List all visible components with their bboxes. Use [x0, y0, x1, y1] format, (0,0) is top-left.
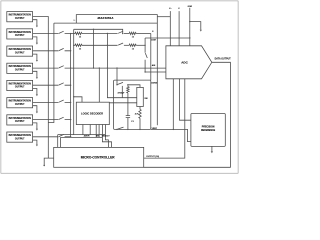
wire from box A2: [33, 33, 71, 35]
instrumentation amplifier output box A6: [7, 98, 33, 108]
svg-text:OUTPUT: OUTPUT: [15, 70, 25, 72]
switch S4 on box A5 wire: [59, 83, 64, 85]
junction bus2-decoder: [73, 96, 74, 97]
switch driver box U5: [137, 87, 144, 106]
junction on bus 1 at y=119.6: [70, 119, 71, 120]
wire micro left port: [44, 158, 54, 165]
wire ADC input 2 from switch S5: [145, 71, 166, 73]
wire row B after switch: [124, 44, 129, 46]
top jumper wire into row A: [74, 29, 123, 33]
switch S2 on box A3 wire: [59, 48, 64, 50]
wire jumper node down to AIN line: [93, 29, 95, 68]
svg-text:OUTPUT: OUTPUT: [15, 87, 25, 89]
junction AIN cross: [107, 67, 108, 68]
wire switch node to driver top: [128, 85, 140, 88]
switch S2A on row A: [118, 31, 123, 33]
chain arrow from box A1 down: [33, 20, 37, 26]
wire driver to R6: [139, 107, 141, 110]
junction row A tap: [107, 33, 108, 34]
vertical bus wire at left of mux: [48, 23, 54, 122]
instrumentation amplifier output box A1: [7, 12, 33, 22]
junction S5-AIN2: [144, 71, 145, 72]
junction switch S3 pole: [116, 84, 117, 85]
junction switch S3 throw: [127, 84, 128, 85]
instrumentation amplifier output box A3: [7, 46, 33, 56]
GND wire to mux COM pin: [145, 37, 190, 39]
decoder bottom pin wire 6: [104, 124, 106, 134]
ground arrow head under reference: [211, 151, 213, 153]
wire row A to right corner: [136, 33, 151, 35]
wire from box A6: [33, 101, 71, 103]
junction bottom rail: [116, 129, 117, 130]
svg-text:OUTPUT: OUTPUT: [15, 52, 25, 54]
wire row B middle: [82, 44, 118, 46]
svg-text:REFERENCE: REFERENCE: [201, 130, 216, 132]
wire row A drop to reference node: [150, 34, 152, 81]
supply V- wire: [178, 11, 180, 46]
chain arrow from box A6 down: [33, 106, 37, 112]
junction jumper tap: [93, 29, 94, 30]
wire C1 to bottom rail: [127, 118, 129, 130]
GND wire vertical: [189, 8, 191, 46]
wire AIN line down to flying cap switch: [116, 68, 118, 85]
junction on bus 1 at y=68.1: [70, 67, 71, 68]
decoder bottom pin wire 2: [89, 124, 91, 134]
decoder bottom pin wire 3: [95, 124, 97, 137]
chain arrow from box A2 down: [33, 37, 37, 43]
junction AIN-switch feed: [116, 67, 117, 68]
wire through R5 branch: [127, 85, 129, 116]
svg-text:VREF: VREF: [152, 128, 158, 130]
capacitor C1: [126, 116, 130, 118]
GND arrow head: [200, 30, 202, 32]
wire row A node down and into switch driver: [107, 34, 136, 98]
decoder bottom pin wire 5: [101, 124, 103, 137]
chain arrow from box A5 down: [33, 89, 37, 95]
logic decoder box U6: [76, 102, 109, 124]
switch S2B on row B: [118, 43, 123, 45]
svg-text:OUTPUT: OUTPUT: [15, 18, 25, 20]
switch S5 on box A6 wire: [59, 100, 64, 102]
bus line 1 right step into micro: [105, 135, 108, 148]
svg-text:ADC: ADC: [181, 61, 188, 65]
wire row A from bus: [71, 33, 75, 35]
wire R6 to bottom rail: [139, 118, 141, 129]
junction VREF-ADC: [173, 129, 174, 130]
wire V+ branch to mux: [157, 16, 170, 18]
resistor R4 on row B: [129, 44, 136, 46]
junction on bus 1 at y=33.6: [70, 33, 71, 34]
svg-text:SW: SW: [144, 98, 147, 100]
junction on bus 1 at y=50.8: [70, 50, 71, 51]
svg-text:OUTPUT: OUTPUT: [15, 35, 25, 37]
wire from box A8: [33, 136, 71, 138]
chain arrow from box A4 down: [33, 71, 37, 77]
switch S7 on box A8 wire: [59, 134, 64, 136]
bus line 1 left step into micro: [57, 135, 59, 148]
switch S1 on box A2 wire: [59, 31, 64, 33]
svg-text:MAX4051A: MAX4051A: [98, 16, 115, 20]
decoder bottom pin wire 1: [82, 124, 84, 134]
ADC data output wire to micro: [144, 62, 231, 167]
svg-text:V-: V-: [178, 8, 180, 10]
wire bus2 into decoder top: [74, 97, 82, 102]
wire row A middle: [82, 33, 118, 35]
node terminal on micro left wire: [43, 165, 45, 167]
junction jumper to row A: [122, 33, 123, 34]
junction GND to COM wire: [189, 37, 190, 38]
wire row A after switch: [124, 33, 129, 35]
svg-text:GND: GND: [188, 6, 193, 8]
precision reference label: [201, 127, 216, 132]
wire ADC ref pin down to VREF line: [172, 79, 174, 130]
junction row B join: [144, 45, 145, 46]
control bus line 2: [61, 136, 103, 138]
supply V+ wire: [169, 11, 171, 46]
switch S3 on box A4 wire: [59, 66, 64, 68]
bus line 2 left step into micro: [60, 137, 62, 147]
mux input bus vertical 1: [70, 34, 72, 138]
instrumentation amplifier output box A4: [7, 63, 33, 73]
svg-text:SELECT: SELECT: [102, 136, 111, 138]
junction R6 foot: [139, 129, 140, 130]
resistor R3 on row B: [75, 44, 82, 46]
instrumentation amplifier output box A5: [7, 80, 33, 90]
wire from box A7: [33, 119, 71, 121]
micro output bus wire to ADC bottom: [144, 79, 185, 158]
wire AIN line down to decoder pin: [98, 68, 100, 102]
bus line 2 right step into micro: [102, 137, 111, 147]
decoder bottom pin wire 4: [98, 124, 100, 137]
svg-text:OUTPUT: OUTPUT: [15, 138, 25, 140]
instrumentation amplifier output box A8: [7, 132, 33, 142]
mux chip box U1 outline: [54, 15, 157, 126]
chain arrow from box A8 down: [33, 140, 37, 145]
mux input bus vertical 2: [73, 29, 75, 134]
junction on bus 1 at y=136.8: [70, 136, 71, 137]
wire from box A3: [33, 50, 71, 52]
svg-text:OUTPUT: OUTPUT: [15, 121, 25, 123]
sample-hold switch chip box U4: [114, 80, 151, 129]
wire from box A1 to long vertical bus: [33, 17, 49, 159]
wire from box A4, continues as ADC input wire AIN: [33, 67, 166, 69]
wire row B from bus: [74, 44, 75, 46]
junction AIN line: [93, 67, 94, 68]
precision reference box U3: [191, 114, 225, 147]
ground stub under reference: [211, 146, 213, 151]
GND branch wire with arrow: [190, 22, 201, 30]
svg-text:PRECISION: PRECISION: [202, 127, 215, 129]
decoder control wire to switch driver: [109, 102, 137, 104]
wire ADC pin to reference input: [180, 79, 191, 120]
instrumentation amplifier output box A7: [7, 115, 33, 125]
junction AIN-decoder: [99, 67, 100, 68]
switch S3 control stub: [121, 86, 123, 98]
junction on bus 1 at y=85.2: [70, 85, 71, 86]
junction C1 foot: [127, 129, 128, 130]
resistor R5 vertical: [127, 87, 129, 93]
svg-text:OUTPUT: OUTPUT: [15, 104, 25, 106]
microcontroller box U7: [54, 147, 144, 167]
instrumentation amplifier output box A2: [7, 29, 33, 39]
ADC block U2: [166, 46, 212, 79]
switch S4 blade on bottom rail: [118, 127, 124, 129]
junction GND branch: [189, 21, 190, 22]
junction bus 2 to row B: [73, 45, 74, 46]
control bus line 1: [58, 134, 106, 136]
vertical wire from GND net through switch S5 to ADC input: [144, 38, 146, 72]
wire row B to GND vertical: [136, 44, 145, 46]
VREF wire to precision reference: [151, 129, 191, 141]
svg-text:COM: COM: [151, 40, 156, 42]
junction row B cross: [107, 45, 108, 46]
switch S6 on box A7 wire: [59, 117, 64, 119]
switch S3 blade: [118, 82, 124, 84]
svg-text:MICRO-CONTROLLER: MICRO-CONTROLLER: [81, 156, 116, 160]
resistor R1 on row A: [75, 32, 82, 34]
switch S5 blade: [145, 53, 147, 58]
resistor R2 on row A: [129, 32, 136, 34]
svg-text:OUTPUT (16): OUTPUT (16): [146, 156, 159, 158]
resistor R6 vertical: [139, 109, 141, 118]
chain arrow from box A3 down: [33, 54, 37, 60]
wire from box A5: [33, 84, 71, 86]
chain arrow from box A7 down: [33, 123, 37, 129]
junction on bus 1 at y=102.4: [70, 102, 71, 103]
